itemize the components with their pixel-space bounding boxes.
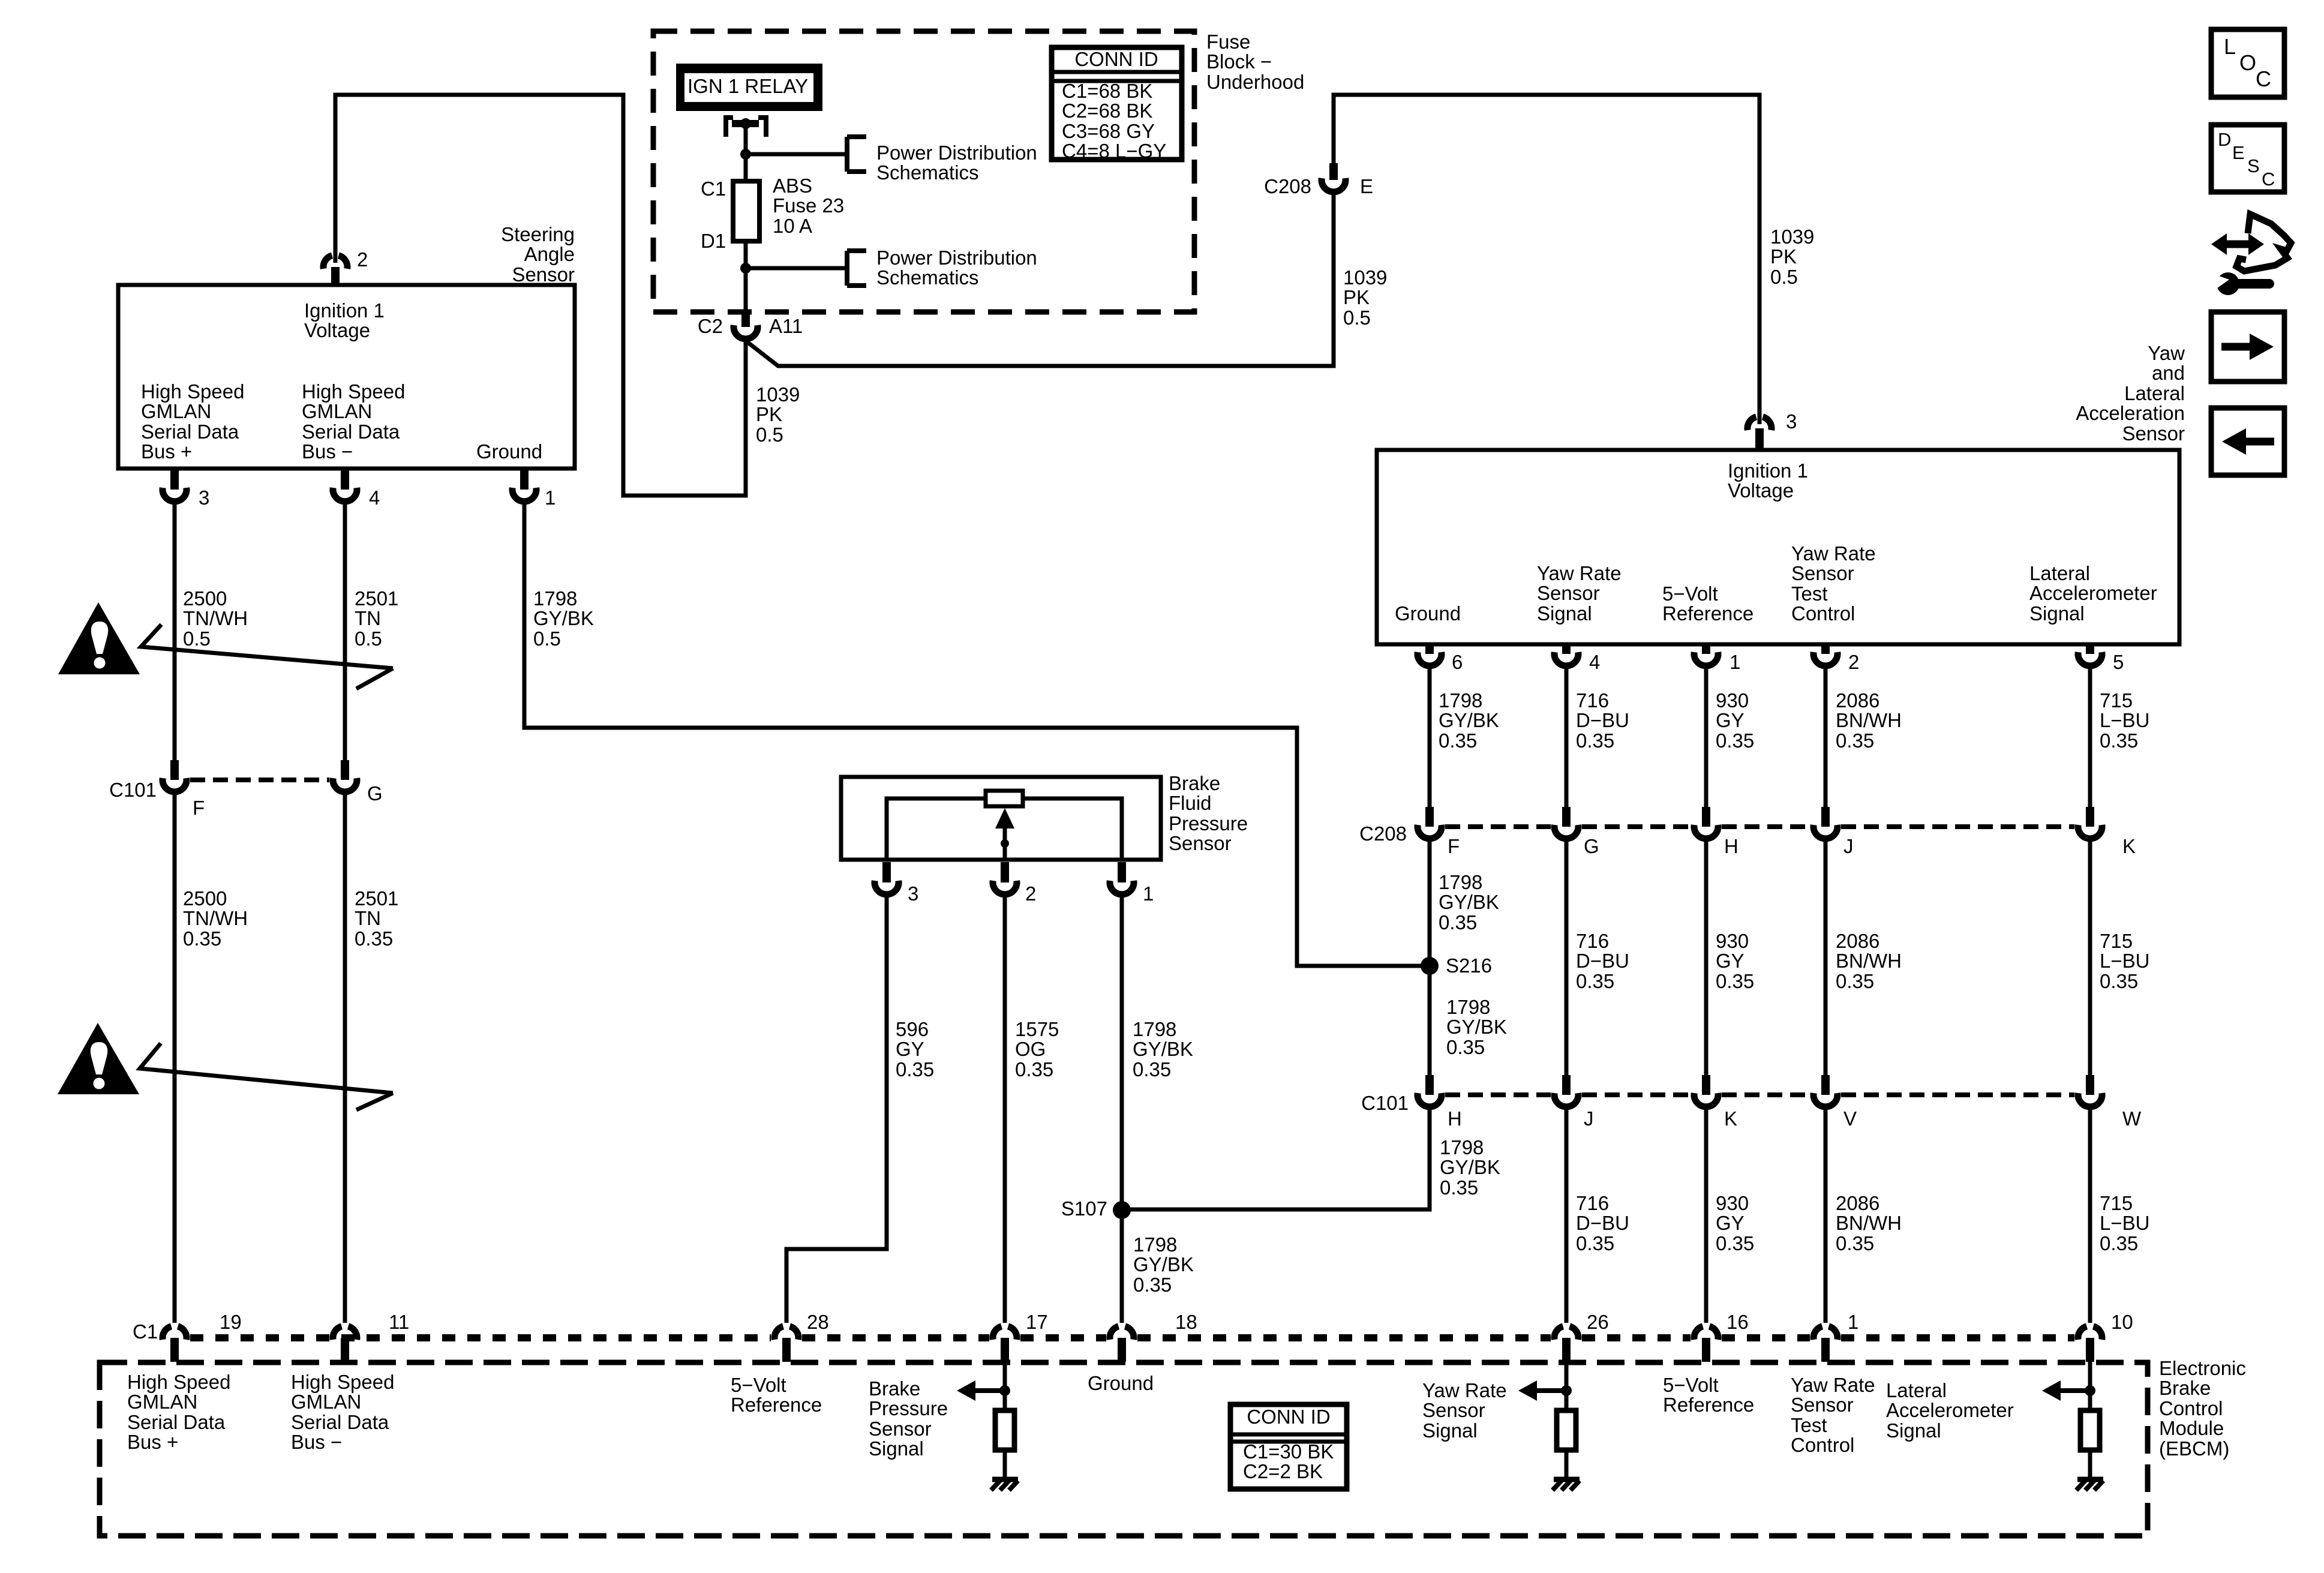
svg-text:Steering: Steering xyxy=(501,223,575,245)
svg-text:0.35: 0.35 xyxy=(1439,911,1477,933)
svg-text:High Speed: High Speed xyxy=(291,1371,394,1393)
C208 row dashed line xyxy=(1445,824,1551,829)
svg-text:Schematics: Schematics xyxy=(876,266,979,289)
wire C208 E to yaw sensor pin 3 xyxy=(1334,95,1759,424)
svg-text:2086: 2086 xyxy=(1836,930,1879,952)
relay K-IGN1 name box xyxy=(676,64,822,111)
junction dot yaw rate signal xyxy=(1561,1385,1572,1396)
wire C101 to EBCM column x2611 xyxy=(1565,1107,1569,1323)
wire C208 to C101 column x2611 xyxy=(1565,839,1569,1075)
svg-text:Yaw Rate: Yaw Rate xyxy=(1791,1374,1875,1396)
svg-text:A11: A11 xyxy=(769,315,803,337)
svg-text:L: L xyxy=(2224,34,2236,59)
power distribution bracket 1 xyxy=(845,137,849,172)
svg-text:5−Volt: 5−Volt xyxy=(731,1374,786,1396)
C101 right row dashed line xyxy=(1445,1092,1551,1097)
svg-text:2: 2 xyxy=(1848,651,1859,673)
fuse ABS Fuse 23 10A xyxy=(733,181,759,241)
svg-text:Ground: Ground xyxy=(476,440,542,463)
svg-text:Module: Module xyxy=(2159,1417,2224,1439)
svg-text:Reference: Reference xyxy=(1663,1394,1754,1416)
svg-text:CONN ID: CONN ID xyxy=(1074,48,1158,70)
wire resistor to ground brake pressure xyxy=(1003,1450,1007,1478)
svg-text:1575: 1575 xyxy=(1015,1018,1059,1040)
svg-text:GY/BK: GY/BK xyxy=(1439,891,1499,913)
svg-text:GY/BK: GY/BK xyxy=(533,607,594,629)
svg-text:E: E xyxy=(1360,175,1373,197)
svg-text:High Speed: High Speed xyxy=(302,380,405,403)
svg-text:Control: Control xyxy=(1791,1434,1854,1456)
svg-text:Sensor: Sensor xyxy=(512,263,575,286)
svg-text:W: W xyxy=(2122,1107,2142,1130)
wire steering pin 4 to C101 G xyxy=(343,505,347,760)
svg-text:716: 716 xyxy=(1576,1192,1609,1214)
svg-text:3: 3 xyxy=(199,487,209,509)
svg-text:Acceleration: Acceleration xyxy=(2076,402,2185,424)
svg-text:BN/WH: BN/WH xyxy=(1836,1212,1902,1234)
svg-text:C2: C2 xyxy=(698,315,723,337)
svg-text:715: 715 xyxy=(2100,1192,2133,1214)
svg-text:0.35: 0.35 xyxy=(1836,730,1874,752)
wire brake pin 2 to EBCM 17 xyxy=(1003,897,1007,1323)
svg-text:1798: 1798 xyxy=(533,587,577,610)
svg-text:K: K xyxy=(2122,835,2136,857)
wire resistor to ground lateral accel xyxy=(2088,1450,2092,1478)
svg-text:19: 19 xyxy=(220,1311,242,1333)
svg-text:1798: 1798 xyxy=(1133,1018,1176,1040)
svg-text:715: 715 xyxy=(2100,930,2133,952)
svg-text:11: 11 xyxy=(389,1311,409,1333)
svg-text:Signal: Signal xyxy=(1537,602,1592,625)
svg-text:26: 26 xyxy=(1587,1311,1609,1333)
svg-text:0.35: 0.35 xyxy=(1133,1058,1171,1080)
wire C101 H down to S107 xyxy=(1126,1107,1430,1209)
yaw pin 2 connector xyxy=(1821,644,1830,654)
connector C101 V xyxy=(1821,1075,1830,1095)
junction dot brake pressure xyxy=(999,1385,1010,1396)
svg-text:GY/BK: GY/BK xyxy=(1440,1156,1500,1178)
svg-text:2500: 2500 xyxy=(183,587,227,610)
connector C101 G left xyxy=(341,760,349,780)
svg-text:GY/BK: GY/BK xyxy=(1133,1253,1194,1275)
svg-text:2501: 2501 xyxy=(355,887,398,909)
svg-text:0.35: 0.35 xyxy=(1836,1232,1874,1254)
svg-text:Lateral: Lateral xyxy=(2124,382,2185,404)
wire to power distribution 2 xyxy=(746,266,847,271)
svg-text:2086: 2086 xyxy=(1836,1192,1879,1214)
wire C101 to EBCM column x3484 xyxy=(2088,1107,2092,1323)
svg-text:Sensor: Sensor xyxy=(1169,832,1232,854)
svg-text:C2=68 BK: C2=68 BK xyxy=(1062,100,1152,122)
svg-text:Sensor: Sensor xyxy=(869,1418,932,1440)
icon LOC box xyxy=(2211,29,2284,97)
svg-text:Test: Test xyxy=(1791,583,1828,605)
svg-text:0.5: 0.5 xyxy=(1343,307,1371,329)
svg-text:Lateral: Lateral xyxy=(1886,1379,1947,1401)
svg-text:10 A: 10 A xyxy=(773,215,812,237)
svg-text:Voltage: Voltage xyxy=(304,319,370,341)
svg-text:C101: C101 xyxy=(109,779,157,801)
svg-text:GMLAN: GMLAN xyxy=(127,1391,197,1413)
svg-text:C: C xyxy=(2256,67,2271,91)
icon left arrow box xyxy=(2211,408,2284,475)
wire to power distribution 1 xyxy=(746,152,847,157)
connector C101 F left xyxy=(170,760,179,780)
svg-text:GY: GY xyxy=(896,1038,924,1060)
svg-text:Fluid: Fluid xyxy=(1169,792,1212,814)
svg-text:Fuse: Fuse xyxy=(1206,31,1250,53)
svg-text:10: 10 xyxy=(2111,1311,2133,1333)
arrow brake pressure xyxy=(957,1380,975,1401)
svg-text:L−BU: L−BU xyxy=(2100,709,2149,731)
svg-text:Signal: Signal xyxy=(1422,1419,1478,1442)
connector C208 H xyxy=(1702,807,1710,827)
svg-text:0.35: 0.35 xyxy=(1716,1232,1754,1254)
svg-text:F: F xyxy=(193,797,205,819)
svg-text:GMLAN: GMLAN xyxy=(302,400,372,422)
svg-text:4: 4 xyxy=(369,487,380,509)
svg-text:1039: 1039 xyxy=(1343,266,1387,289)
svg-text:GY: GY xyxy=(1716,709,1744,731)
brake sensor pin 3 connector xyxy=(882,862,891,882)
wire yaw column x3484 to C208 xyxy=(2088,669,2092,807)
junction dot power distribution 2 xyxy=(740,263,751,274)
wire C101 to EBCM column x3043 xyxy=(1824,1107,1828,1323)
svg-text:1: 1 xyxy=(1848,1311,1858,1333)
svg-text:Bus −: Bus − xyxy=(291,1431,342,1453)
svg-text:28: 28 xyxy=(807,1311,829,1333)
svg-text:D−BU: D−BU xyxy=(1576,950,1629,972)
svg-text:715: 715 xyxy=(2100,689,2133,712)
svg-text:0.35: 0.35 xyxy=(1015,1058,1053,1080)
svg-text:S107: S107 xyxy=(1061,1197,1107,1220)
svg-text:C208: C208 xyxy=(1359,822,1407,845)
svg-text:0.35: 0.35 xyxy=(2100,730,2138,752)
svg-text:1798: 1798 xyxy=(1439,871,1482,893)
svg-text:S216: S216 xyxy=(1446,954,1492,977)
svg-text:Bus −: Bus − xyxy=(302,440,353,463)
svg-text:3: 3 xyxy=(1786,410,1797,433)
svg-text:0.35: 0.35 xyxy=(1836,970,1874,992)
svg-text:Control: Control xyxy=(2159,1397,2223,1419)
connector C208 K xyxy=(2086,807,2094,827)
svg-text:0.35: 0.35 xyxy=(1133,1274,1172,1296)
svg-text:BN/WH: BN/WH xyxy=(1836,709,1902,731)
svg-text:1039: 1039 xyxy=(756,383,800,406)
wire C2 A11 to C208 E xyxy=(746,195,1334,366)
svg-text:Pressure: Pressure xyxy=(869,1397,948,1419)
twisted pair mark 1 xyxy=(141,625,393,689)
steering angle sensor box xyxy=(118,285,575,469)
resistor lateral accel xyxy=(2080,1410,2100,1450)
yaw pin 4 connector xyxy=(1562,644,1571,654)
resistor yaw rate signal xyxy=(1557,1410,1576,1450)
svg-text:Voltage: Voltage xyxy=(1728,479,1794,502)
brake fluid pressure sensor box xyxy=(841,777,1161,860)
svg-text:Electronic: Electronic xyxy=(2159,1357,2246,1379)
svg-text:ABS: ABS xyxy=(773,175,812,197)
svg-text:C3=68 GY: C3=68 GY xyxy=(1062,120,1155,142)
connector C208 G xyxy=(1562,807,1571,827)
svg-text:PK: PK xyxy=(1343,286,1370,308)
connector C1/C2 pin 17 xyxy=(993,1326,1002,1340)
arrow yaw rate signal xyxy=(1518,1380,1537,1401)
svg-text:Signal: Signal xyxy=(2029,602,2085,625)
svg-text:5−Volt: 5−Volt xyxy=(1663,1374,1719,1396)
svg-text:S: S xyxy=(2247,155,2260,176)
svg-text:Pressure: Pressure xyxy=(1169,812,1248,834)
svg-text:D−BU: D−BU xyxy=(1576,709,1629,731)
svg-text:6: 6 xyxy=(1452,651,1463,673)
svg-text:Accelerometer: Accelerometer xyxy=(2029,582,2157,604)
warning triangle 1 xyxy=(58,602,140,674)
svg-text:Ignition 1: Ignition 1 xyxy=(304,299,385,322)
ground symbol lateral accel xyxy=(2077,1477,2103,1482)
connector C101 W xyxy=(2086,1075,2094,1095)
svg-text:1: 1 xyxy=(545,487,556,509)
svg-text:F: F xyxy=(1448,835,1460,857)
steering pin 2 connector xyxy=(323,256,332,269)
svg-text:0.5: 0.5 xyxy=(355,628,382,650)
svg-text:TN/WH: TN/WH xyxy=(183,607,248,629)
svg-text:Power Distribution: Power Distribution xyxy=(876,247,1037,269)
connector C101 J xyxy=(1562,1075,1571,1095)
splice S216 xyxy=(1421,957,1439,975)
connector C1/C2 pin 19 xyxy=(163,1326,172,1340)
svg-text:Signal: Signal xyxy=(1886,1419,1941,1442)
icon right arrow box xyxy=(2211,312,2284,382)
svg-text:1798: 1798 xyxy=(1446,996,1490,1018)
conn id table fuse block xyxy=(1052,47,1182,160)
svg-text:17: 17 xyxy=(1026,1311,1048,1333)
splice S107 xyxy=(1113,1201,1131,1219)
svg-text:930: 930 xyxy=(1716,689,1749,712)
svg-text:Brake: Brake xyxy=(869,1377,920,1400)
wire yaw column x2611 to C208 xyxy=(1565,669,1569,807)
resistor brake pressure xyxy=(995,1410,1014,1450)
svg-text:and: and xyxy=(2152,362,2185,384)
svg-text:16: 16 xyxy=(1727,1311,1749,1333)
svg-text:L−BU: L−BU xyxy=(2100,950,2149,972)
svg-text:Bus +: Bus + xyxy=(127,1431,178,1453)
connector C1/C2 pin 11 xyxy=(333,1326,342,1340)
connector C1/C2 pin 28 xyxy=(774,1326,783,1340)
svg-text:TN/WH: TN/WH xyxy=(183,907,248,929)
svg-text:Angle: Angle xyxy=(524,243,575,265)
svg-text:C1=68 BK: C1=68 BK xyxy=(1062,80,1152,102)
yaw pin 6 connector xyxy=(1425,644,1434,654)
svg-text:H: H xyxy=(1448,1107,1462,1130)
svg-text:E: E xyxy=(2232,142,2245,163)
svg-text:0.5: 0.5 xyxy=(756,424,783,446)
svg-text:Schematics: Schematics xyxy=(876,161,979,184)
svg-text:716: 716 xyxy=(1576,930,1609,952)
svg-text:Ground: Ground xyxy=(1395,602,1461,625)
arrow lateral accel xyxy=(2042,1380,2061,1401)
svg-text:Serial Data: Serial Data xyxy=(291,1411,389,1433)
svg-text:Block −: Block − xyxy=(1206,50,1272,73)
connector C2 A11 xyxy=(741,312,750,327)
connector C208 J xyxy=(1821,807,1830,827)
wire C101 F to EBCM 19 xyxy=(173,795,177,1323)
junction dot power distribution 1 xyxy=(740,149,751,160)
steering pin 1 connector xyxy=(520,469,529,490)
svg-text:Test: Test xyxy=(1791,1414,1827,1436)
warning triangle 2 xyxy=(58,1023,139,1094)
brake sensor wiring right xyxy=(1023,798,1122,860)
svg-text:Yaw: Yaw xyxy=(2148,342,2185,364)
svg-text:Serial Data: Serial Data xyxy=(141,421,239,443)
ground symbol brake pressure xyxy=(992,1477,1018,1482)
svg-text:C101: C101 xyxy=(1361,1092,1409,1114)
svg-text:D−BU: D−BU xyxy=(1576,1212,1629,1234)
svg-text:H: H xyxy=(1724,835,1739,857)
svg-text:Control: Control xyxy=(1791,602,1855,625)
svg-text:L−BU: L−BU xyxy=(2100,1212,2149,1234)
svg-text:Yaw Rate: Yaw Rate xyxy=(1537,562,1622,584)
svg-text:C4=8 L−GY: C4=8 L−GY xyxy=(1062,140,1166,162)
wire fuse D1 down xyxy=(744,241,748,312)
svg-text:0.35: 0.35 xyxy=(1576,1232,1614,1254)
svg-text:0.35: 0.35 xyxy=(1716,970,1754,992)
svg-text:716: 716 xyxy=(1576,689,1609,712)
brake sensor wiper arrow xyxy=(1003,825,1007,860)
svg-text:0.35: 0.35 xyxy=(2100,970,2138,992)
svg-text:0.35: 0.35 xyxy=(896,1058,934,1080)
EBCM row dotted line xyxy=(190,1334,771,1341)
svg-text:Sensor: Sensor xyxy=(1791,562,1854,584)
wire brake pin 3 to EBCM 28 xyxy=(786,897,887,1323)
svg-text:Sensor: Sensor xyxy=(1791,1394,1854,1416)
svg-text:0.35: 0.35 xyxy=(1446,1036,1485,1058)
svg-text:BN/WH: BN/WH xyxy=(1836,950,1902,972)
connector C208 E xyxy=(1329,163,1338,180)
EBCM dashed box xyxy=(100,1362,2148,1536)
svg-text:2501: 2501 xyxy=(355,587,398,610)
svg-text:596: 596 xyxy=(896,1018,929,1040)
wire C208 to C101 column x3043 xyxy=(1824,839,1828,1075)
svg-text:Serial Data: Serial Data xyxy=(127,1411,226,1433)
wire steering pin 2 to C2 A11 xyxy=(335,95,746,496)
svg-text:5: 5 xyxy=(2113,651,2124,673)
wire EBCM internal lateral accel xyxy=(2088,1362,2092,1413)
svg-text:0.5: 0.5 xyxy=(183,628,211,650)
wire yaw column x3043 to C208 xyxy=(1824,669,1828,807)
svg-text:Reference: Reference xyxy=(1662,602,1753,625)
wire C208 to C101 column x2844 xyxy=(1704,839,1709,1075)
svg-text:IGN 1 RELAY: IGN 1 RELAY xyxy=(687,75,808,97)
wire steering pin 1 ground to S216 xyxy=(524,505,1425,966)
wire steering pin 3 to C101 F xyxy=(173,505,177,760)
svg-text:0.35: 0.35 xyxy=(1716,730,1754,752)
svg-text:930: 930 xyxy=(1716,1192,1749,1214)
svg-text:Ground: Ground xyxy=(1088,1372,1154,1394)
wire EBCM internal yaw rate signal xyxy=(1565,1362,1569,1413)
yaw pin 5 connector xyxy=(2086,644,2094,654)
svg-text:1: 1 xyxy=(1143,882,1154,905)
svg-text:Brake: Brake xyxy=(1169,772,1220,794)
svg-text:Sensor: Sensor xyxy=(1537,582,1600,604)
connector C1/C2 pin 26 xyxy=(1554,1326,1563,1340)
svg-text:0.35: 0.35 xyxy=(1440,1176,1478,1199)
svg-text:Yaw Rate: Yaw Rate xyxy=(1422,1379,1507,1401)
svg-text:C2=2 BK: C2=2 BK xyxy=(1243,1460,1323,1482)
twisted pair mark 2 xyxy=(140,1043,393,1110)
svg-text:C1: C1 xyxy=(133,1320,158,1343)
svg-text:Power Distribution: Power Distribution xyxy=(876,142,1037,164)
conn id table EBCM xyxy=(1230,1404,1347,1489)
svg-text:4: 4 xyxy=(1589,651,1600,673)
svg-text:GY: GY xyxy=(1716,950,1744,972)
svg-text:V: V xyxy=(1843,1107,1857,1130)
svg-text:High Speed: High Speed xyxy=(127,1371,230,1393)
svg-text:GY/BK: GY/BK xyxy=(1133,1038,1193,1060)
svg-text:0.5: 0.5 xyxy=(533,628,561,650)
icon right arrow xyxy=(2221,343,2251,351)
fuse block underhood dashed box xyxy=(653,31,1194,312)
svg-text:2500: 2500 xyxy=(183,887,227,909)
svg-text:C1: C1 xyxy=(701,178,726,200)
svg-text:Ignition 1: Ignition 1 xyxy=(1728,460,1808,482)
wire relay to fuse C1 xyxy=(744,124,748,181)
svg-text:Fuse 23: Fuse 23 xyxy=(773,194,844,217)
svg-text:3: 3 xyxy=(908,882,918,905)
svg-text:OG: OG xyxy=(1015,1038,1046,1060)
svg-text:Serial Data: Serial Data xyxy=(302,421,400,443)
svg-text:Sensor: Sensor xyxy=(1422,1399,1485,1421)
svg-text:GMLAN: GMLAN xyxy=(141,400,211,422)
svg-text:1039: 1039 xyxy=(1770,226,1814,248)
brake sensor potentiometer xyxy=(986,791,1023,806)
svg-text:C1=30 BK: C1=30 BK xyxy=(1243,1440,1334,1463)
connector C101 H xyxy=(1425,1075,1434,1095)
svg-text:CONN ID: CONN ID xyxy=(1247,1406,1330,1428)
svg-text:0.5: 0.5 xyxy=(1770,266,1798,288)
svg-text:C208: C208 xyxy=(1264,175,1311,197)
connector C101 K xyxy=(1702,1075,1710,1095)
svg-text:PK: PK xyxy=(1770,245,1797,268)
steering pin 3 connector xyxy=(170,469,179,490)
svg-text:1798: 1798 xyxy=(1440,1136,1484,1158)
svg-text:G: G xyxy=(367,782,383,804)
yaw pin 3 connector xyxy=(1747,417,1756,430)
svg-text:J: J xyxy=(1843,835,1854,857)
wire C101 to EBCM column x2844 xyxy=(1704,1107,1709,1323)
wire brake pin 1 to EBCM 18 xyxy=(1120,897,1124,1323)
svg-text:2086: 2086 xyxy=(1836,689,1879,712)
svg-text:Yaw Rate: Yaw Rate xyxy=(1791,542,1876,565)
svg-text:GY/BK: GY/BK xyxy=(1446,1016,1507,1038)
icon DESC box xyxy=(2211,125,2284,192)
yaw pin 1 connector xyxy=(1702,644,1710,654)
svg-text:Accelerometer: Accelerometer xyxy=(1886,1399,2014,1421)
svg-text:1798: 1798 xyxy=(1439,689,1482,712)
svg-text:Bus +: Bus + xyxy=(141,440,192,463)
connector C1/C2 pin 10 xyxy=(2078,1326,2087,1340)
wire EBCM internal brake pressure xyxy=(1003,1362,1007,1413)
svg-text:2: 2 xyxy=(357,248,368,271)
brake sensor pin 2 connector xyxy=(1001,862,1009,882)
connector C1/C2 pin 18 xyxy=(1110,1326,1119,1340)
wire resistor to ground yaw rate signal xyxy=(1565,1450,1569,1478)
svg-text:0.35: 0.35 xyxy=(1576,730,1614,752)
brake sensor pin 1 connector xyxy=(1118,862,1126,882)
svg-text:Lateral: Lateral xyxy=(2029,562,2090,584)
svg-text:Brake: Brake xyxy=(2159,1377,2211,1399)
ground symbol yaw rate signal xyxy=(1554,1477,1580,1482)
svg-text:D1: D1 xyxy=(701,230,726,252)
svg-text:1798: 1798 xyxy=(1133,1233,1177,1256)
